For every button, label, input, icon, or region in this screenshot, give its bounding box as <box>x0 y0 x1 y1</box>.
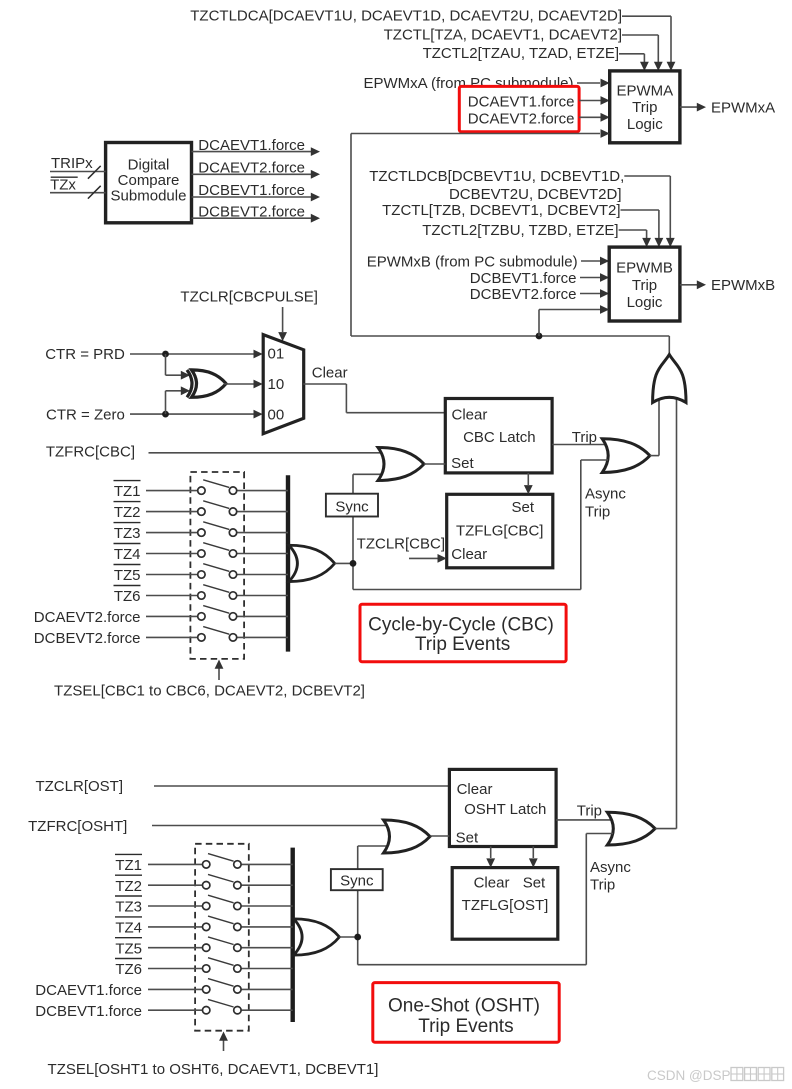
svg-text:CBC Latch: CBC Latch <box>463 429 536 446</box>
svg-text:TZSEL[OSHT1 to OSHT6, DCAEVT1,: TZSEL[OSHT1 to OSHT6, DCAEVT1, DCBEVT1] <box>48 1061 379 1078</box>
svg-text:Logic: Logic <box>627 116 663 133</box>
svg-text:TZ1: TZ1 <box>114 483 141 500</box>
svg-text:Sync: Sync <box>340 872 374 889</box>
svg-text:DCBEVT1.force: DCBEVT1.force <box>198 182 305 199</box>
svg-text:TZCTLDCA[DCAEVT1U, DCAEVT1D, D: TZCTLDCA[DCAEVT1U, DCAEVT1D, DCAEVT2U, D… <box>190 8 622 25</box>
svg-text:TZCTL2[TZAU, TZAD, ETZE]: TZCTL2[TZAU, TZAD, ETZE] <box>423 45 619 62</box>
svg-text:00: 00 <box>268 407 285 424</box>
svg-text:TZ3: TZ3 <box>115 899 142 916</box>
svg-text:DCBEVT2U, DCBEVT2D]: DCBEVT2U, DCBEVT2D] <box>449 186 622 203</box>
svg-text:10: 10 <box>268 376 285 393</box>
svg-text:DCAEVT2.force: DCAEVT2.force <box>468 110 575 127</box>
svg-text:TZ3: TZ3 <box>114 525 141 542</box>
svg-text:DCBEVT2.force: DCBEVT2.force <box>34 630 141 647</box>
svg-text:DCAEVT2.force: DCAEVT2.force <box>198 160 305 177</box>
svg-text:DCAEVT1.force: DCAEVT1.force <box>198 137 305 154</box>
svg-text:Sync: Sync <box>335 498 369 515</box>
svg-text:Clear: Clear <box>452 406 488 423</box>
svg-text:EPWMxB (from PC submodule): EPWMxB (from PC submodule) <box>367 253 578 270</box>
svg-text:Set: Set <box>511 499 534 516</box>
svg-text:DCBEVT2.force: DCBEVT2.force <box>470 286 577 303</box>
svg-text:OSHT Latch: OSHT Latch <box>464 801 546 818</box>
svg-text:CTR = PRD: CTR = PRD <box>45 346 125 363</box>
svg-text:TZ4: TZ4 <box>115 920 142 937</box>
svg-text:Clear: Clear <box>312 365 348 382</box>
svg-text:DCBEVT2.force: DCBEVT2.force <box>198 203 305 220</box>
svg-text:TZ6: TZ6 <box>115 961 142 978</box>
svg-text:TZCLR[CBCPULSE]: TZCLR[CBCPULSE] <box>180 289 318 306</box>
svg-text:TZ4: TZ4 <box>114 546 141 563</box>
svg-text:DCBEVT1.force: DCBEVT1.force <box>35 1003 142 1020</box>
svg-text:TZFRC[CBC]: TZFRC[CBC] <box>46 444 135 461</box>
svg-text:TZ1: TZ1 <box>115 857 142 874</box>
svg-text:DCAEVT2.force: DCAEVT2.force <box>34 609 141 626</box>
svg-text:CSDN @DSP: CSDN @DSP <box>647 1068 730 1083</box>
svg-text:Trip: Trip <box>590 877 615 894</box>
svg-text:Trip: Trip <box>577 803 602 820</box>
svg-text:TZ2: TZ2 <box>115 878 142 895</box>
svg-text:Set: Set <box>456 830 479 847</box>
svg-text:TZFRC[OSHT]: TZFRC[OSHT] <box>28 818 127 835</box>
svg-text:Compare: Compare <box>118 172 180 189</box>
svg-text:DCAEVT1.force: DCAEVT1.force <box>468 93 575 110</box>
svg-text:Trip: Trip <box>632 99 657 116</box>
svg-text:TRIPx: TRIPx <box>51 155 93 172</box>
svg-text:TZ2: TZ2 <box>114 504 141 521</box>
svg-text:Submodule: Submodule <box>111 188 187 205</box>
svg-text:DCBEVT1.force: DCBEVT1.force <box>470 270 577 287</box>
svg-text:Set: Set <box>523 875 546 892</box>
svg-text:Async: Async <box>590 859 631 876</box>
svg-text:TZCTL[TZA, DCAEVT1, DCAEVT2]: TZCTL[TZA, DCAEVT1, DCAEVT2] <box>384 26 622 43</box>
svg-text:One-Shot (OSHT): One-Shot (OSHT) <box>388 996 540 1017</box>
svg-text:TZCTL2[TZBU, TZBD, ETZE]: TZCTL2[TZBU, TZBD, ETZE] <box>422 222 618 239</box>
svg-text:TZCTLDCB[DCBEVT1U, DCBEVT1D,: TZCTLDCB[DCBEVT1U, DCBEVT1D, <box>369 168 624 185</box>
svg-text:Clear: Clear <box>474 875 510 892</box>
svg-text:Clear: Clear <box>451 546 487 563</box>
svg-text:Trip: Trip <box>632 277 657 294</box>
svg-text:EPWMxB: EPWMxB <box>711 277 775 294</box>
svg-text:Async: Async <box>585 486 626 503</box>
svg-text:TZ6: TZ6 <box>114 588 141 605</box>
svg-text:EPWMB: EPWMB <box>616 259 673 276</box>
svg-text:EPWMxA: EPWMxA <box>711 99 775 116</box>
svg-text:01: 01 <box>268 346 285 363</box>
svg-text:Digital: Digital <box>128 156 170 173</box>
svg-text:Trip: Trip <box>585 504 610 521</box>
svg-text:Logic: Logic <box>627 294 663 311</box>
svg-text:Trip Events: Trip Events <box>418 1016 513 1037</box>
svg-text:TZCLR[CBC]: TZCLR[CBC] <box>357 536 445 553</box>
svg-text:DCAEVT1.force: DCAEVT1.force <box>35 982 142 999</box>
svg-text:Clear: Clear <box>457 781 493 798</box>
svg-text:TZFLG[CBC]: TZFLG[CBC] <box>456 522 544 539</box>
svg-text:Cycle-by-Cycle (CBC): Cycle-by-Cycle (CBC) <box>368 615 554 636</box>
svg-text:Trip: Trip <box>572 429 597 446</box>
svg-text:TZCLR[OST]: TZCLR[OST] <box>35 778 123 795</box>
svg-text:Set: Set <box>451 455 474 472</box>
svg-text:TZFLG[OST]: TZFLG[OST] <box>462 897 549 914</box>
svg-text:EPWMA: EPWMA <box>616 83 673 100</box>
svg-text:TZSEL[CBC1 to CBC6, DCAEVT2, D: TZSEL[CBC1 to CBC6, DCAEVT2, DCBEVT2] <box>54 683 365 700</box>
svg-text:TZx: TZx <box>50 177 76 194</box>
svg-text:TZ5: TZ5 <box>114 567 141 584</box>
svg-text:Trip Events: Trip Events <box>415 634 510 655</box>
svg-text:TZ5: TZ5 <box>115 940 142 957</box>
svg-text:CTR = Zero: CTR = Zero <box>46 407 125 424</box>
svg-text:TZCTL[TZB, DCBEVT1, DCBEVT2]: TZCTL[TZB, DCBEVT1, DCBEVT2] <box>382 202 620 219</box>
